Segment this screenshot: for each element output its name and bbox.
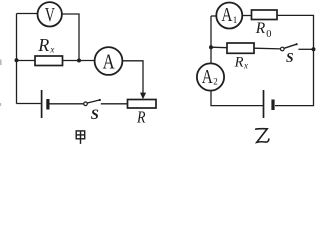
svg-text:R: R [37,35,49,55]
svg-text:R: R [136,108,146,127]
svg-text:V: V [45,5,55,26]
svg-text:1: 1 [233,15,238,25]
svg-text:x: x [243,61,248,71]
svg-text:A: A [103,49,116,73]
svg-text:0: 0 [266,29,271,40]
svg-text:x: x [49,44,54,54]
svg-text:A: A [202,66,213,88]
svg-text:S: S [91,107,99,123]
svg-text:2: 2 [213,77,218,87]
svg-text:R: R [234,55,244,71]
svg-text:A: A [221,4,232,26]
svg-text:S: S [286,50,294,65]
svg-text:R: R [255,20,266,37]
